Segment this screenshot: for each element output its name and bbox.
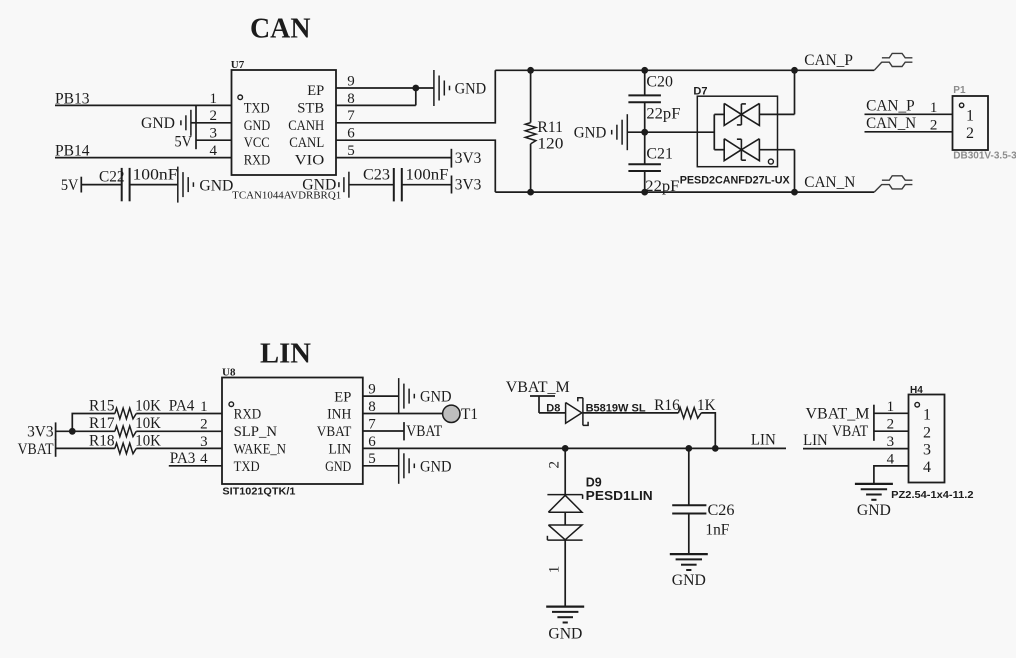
svg-text:PESD1LIN: PESD1LIN: [586, 489, 653, 503]
wire junction up to row 1: [72, 414, 115, 432]
svg-text:LIN: LIN: [260, 337, 311, 369]
svg-text:7: 7: [368, 416, 376, 432]
net label LIN at wire end: [751, 431, 776, 448]
svg-text:CAN: CAN: [250, 13, 311, 45]
power port GND at U8 pin 9: [399, 378, 452, 414]
svg-text:R18: R18: [89, 432, 115, 449]
resistor R18 10K: [89, 432, 222, 453]
svg-text:22pF: 22pF: [645, 178, 679, 195]
pin number 2 of H4: [887, 417, 895, 433]
power port 5V at C22: [61, 177, 81, 194]
connector H4 PZ2.54-1x4-11.2: [891, 385, 973, 501]
svg-text:RXD: RXD: [244, 153, 271, 169]
svg-text:STB: STB: [297, 100, 324, 116]
wire 3V3 to junction: [56, 428, 76, 435]
net label CAN_P at rail: [804, 52, 853, 69]
net label VBAT at H4: [832, 423, 868, 440]
net label CAN_N at rail: [804, 174, 855, 191]
wire U7 pin 2 stub: [196, 122, 232, 124]
net label CAN_P at P1: [866, 98, 915, 115]
svg-text:GND: GND: [548, 625, 582, 642]
svg-text:6: 6: [347, 126, 355, 142]
svg-text:2: 2: [547, 461, 563, 469]
power port 3V3 left: [27, 422, 56, 440]
svg-text:4: 4: [923, 459, 931, 476]
svg-text:T1: T1: [461, 406, 478, 423]
pin number 1 of P1: [930, 100, 938, 116]
power port GND at U7 pin 2: [141, 110, 196, 136]
IC U8 SIT1021QTK/1: [200, 366, 376, 497]
svg-text:PA4: PA4: [169, 398, 195, 415]
svg-text:2: 2: [966, 125, 974, 142]
svg-text:D7: D7: [693, 86, 707, 98]
net label PA3: [170, 450, 196, 467]
svg-text:4: 4: [200, 451, 208, 467]
svg-text:VBAT: VBAT: [18, 441, 54, 458]
svg-text:CANH: CANH: [288, 118, 324, 134]
capacitor C23 100nF: [349, 167, 452, 202]
wire U7 pin 3 stub: [196, 139, 232, 141]
wire U8 pin 6 LIN net: [363, 445, 786, 452]
capacitor C22 100nF: [81, 167, 178, 202]
svg-text:1K: 1K: [697, 397, 716, 414]
wire R17 row: [72, 430, 115, 432]
svg-text:9: 9: [368, 382, 376, 398]
svg-text:GND: GND: [325, 459, 351, 475]
svg-text:10K: 10K: [135, 415, 161, 432]
svg-text:VBAT: VBAT: [317, 424, 352, 440]
svg-text:GND: GND: [420, 458, 452, 475]
capacitor C20 22pF: [628, 70, 680, 132]
resistor R17 10K: [89, 415, 222, 436]
svg-text:3: 3: [210, 126, 218, 142]
net label LIN at H4: [803, 432, 828, 449]
svg-text:VBAT_M: VBAT_M: [506, 379, 570, 396]
svg-text:CANL: CANL: [289, 135, 324, 151]
power port VBAT_M at D8: [506, 379, 570, 413]
svg-text:SIT1021QTK/1: SIT1021QTK/1: [222, 485, 295, 497]
wire H4 pin 4 to ground: [874, 466, 909, 484]
wire LIN to H4 pin 3: [803, 448, 909, 450]
svg-text:U8: U8: [222, 366, 236, 378]
test point T1: [443, 405, 478, 423]
svg-text:2: 2: [200, 416, 208, 432]
svg-text:TXD: TXD: [234, 459, 260, 475]
svg-text:GND: GND: [420, 389, 452, 406]
svg-text:4: 4: [210, 143, 218, 159]
net label PA4: [169, 398, 195, 415]
svg-text:1: 1: [887, 399, 895, 415]
connector P1 DB301V-3.5: [953, 85, 1016, 161]
svg-text:10K: 10K: [135, 398, 161, 415]
svg-text:RXD: RXD: [234, 407, 262, 423]
svg-text:R15: R15: [89, 398, 115, 415]
wire D7 upper to CAN_P rail: [794, 70, 796, 114]
wire PA3 to U8 pin 4: [169, 465, 222, 467]
svg-text:GND: GND: [574, 124, 607, 141]
wire top rail CAN_P: [495, 67, 874, 74]
svg-text:GND: GND: [199, 177, 233, 194]
svg-text:LIN: LIN: [329, 442, 352, 458]
net label CAN_N at P1: [866, 115, 916, 132]
wire D8 to R16: [583, 412, 679, 414]
svg-text:1: 1: [547, 566, 563, 574]
wire D7 lower to CAN_N rail: [794, 150, 796, 192]
power port GND at U7 pin 9: [434, 70, 486, 106]
power port 3V3 at C23: [452, 176, 482, 194]
pin number 4 of H4: [887, 451, 895, 467]
svg-text:5V: 5V: [61, 177, 79, 194]
wire R16 to LIN net: [701, 413, 715, 449]
wire U8 pin 9 to GND: [363, 395, 399, 397]
capacitor C21 22pF: [628, 132, 679, 195]
wire bottom rail CAN_N: [495, 189, 874, 196]
svg-text:1: 1: [966, 107, 974, 124]
svg-text:22pF: 22pF: [646, 106, 680, 123]
wire H4 pin 2: [874, 430, 909, 432]
svg-text:GND: GND: [302, 177, 336, 194]
power port GND at C23: [302, 172, 349, 198]
svg-text:1: 1: [210, 91, 218, 107]
TVS diode D7 PESD2CANFD27L-UX: [680, 86, 795, 187]
svg-text:6: 6: [368, 434, 376, 450]
svg-text:8: 8: [347, 91, 355, 107]
power port GND at C22: [178, 167, 234, 203]
svg-text:PZ2.54-1x4-11.2: PZ2.54-1x4-11.2: [891, 489, 973, 501]
pin number 3 of H4: [887, 434, 895, 450]
power port 5V at U7 pin 3: [175, 134, 193, 151]
power port GND at U8 pin 5: [399, 448, 452, 484]
svg-text:7: 7: [347, 108, 355, 124]
svg-text:120: 120: [537, 135, 563, 152]
pin number 1 of H4: [887, 399, 895, 415]
svg-text:2: 2: [887, 417, 895, 433]
svg-text:C22: C22: [99, 169, 125, 186]
svg-text:D9: D9: [586, 475, 602, 489]
wire CAN_P to P1 pin 1: [865, 113, 953, 115]
svg-text:VBAT: VBAT: [406, 423, 442, 440]
wire U7 pin 7 CANH to top rail: [336, 70, 495, 123]
svg-text:3: 3: [200, 434, 208, 450]
svg-text:EP: EP: [334, 389, 351, 405]
ground at D9: [546, 607, 584, 643]
svg-text:C26: C26: [708, 502, 735, 519]
svg-text:LIN: LIN: [751, 431, 776, 448]
svg-text:VIO: VIO: [295, 153, 325, 169]
svg-text:GND: GND: [857, 502, 891, 519]
svg-text:1: 1: [200, 399, 208, 415]
wire vertical bus left of U7: [195, 105, 197, 149]
svg-text:8: 8: [368, 399, 376, 415]
svg-text:3V3: 3V3: [455, 150, 482, 167]
svg-text:C20: C20: [646, 73, 673, 90]
wire PB14 to U7 pin 4: [55, 157, 232, 159]
svg-text:5: 5: [347, 143, 355, 159]
wire PB13 to U7 pin 1: [55, 104, 232, 106]
TVS diode D9 PESD1LIN: [547, 448, 653, 606]
svg-text:GND: GND: [244, 118, 271, 134]
net label VBAT_M at H4: [806, 405, 870, 422]
svg-text:CAN_P: CAN_P: [804, 52, 853, 69]
wire U7 pin 9 to GND: [336, 85, 434, 92]
wire GND junction to D7: [645, 131, 715, 133]
resistor R11 120: [525, 70, 563, 192]
svg-text:1: 1: [930, 100, 938, 116]
wire H4 pin 1: [874, 412, 909, 414]
svg-text:SLP_N: SLP_N: [234, 424, 278, 440]
title LIN: [260, 337, 311, 369]
svg-text:2: 2: [923, 424, 931, 441]
svg-text:R17: R17: [89, 415, 115, 432]
pin number 2 of P1: [930, 117, 938, 133]
svg-text:EP: EP: [307, 83, 324, 99]
wire U8 pin 7 to VBAT: [363, 430, 404, 432]
resistor R16 1K: [654, 397, 716, 418]
wire VBAT_M to D8 anode: [539, 412, 566, 414]
power port bar at H4 pins 1 2: [873, 405, 875, 441]
svg-text:GND: GND: [455, 81, 487, 98]
ground at H4: [855, 484, 893, 519]
svg-text:GND: GND: [141, 115, 175, 132]
svg-text:INH: INH: [327, 407, 351, 423]
svg-text:PESD2CANFD27L-UX: PESD2CANFD27L-UX: [680, 174, 791, 186]
capacitor C26 1nF: [672, 448, 734, 554]
svg-text:VCC: VCC: [244, 135, 270, 151]
svg-text:WAKE_N: WAKE_N: [234, 442, 287, 458]
svg-text:3: 3: [887, 434, 895, 450]
svg-text:LIN: LIN: [803, 432, 828, 449]
svg-text:9: 9: [347, 73, 355, 89]
svg-text:5: 5: [368, 451, 376, 467]
svg-text:GND: GND: [672, 572, 706, 589]
svg-text:DB301V-3.5-3P: DB301V-3.5-3P: [953, 150, 1016, 161]
svg-text:PA3: PA3: [170, 450, 196, 467]
resistor R15 10K: [89, 398, 222, 419]
svg-text:VBAT_M: VBAT_M: [806, 405, 870, 422]
net label PB13: [55, 90, 90, 107]
connector stub CAN_N: [874, 176, 912, 192]
svg-text:1nF: 1nF: [705, 521, 729, 538]
wire U8 pin 5 to GND: [363, 465, 399, 467]
IC U7 TCAN1044AVDRBRQ1: [210, 59, 356, 202]
wire U7 pin 5 to 3V3: [336, 157, 451, 159]
svg-text:TXD: TXD: [244, 100, 270, 116]
wire U8 pin 8 to T1: [363, 413, 443, 415]
diode D8 B5819W SL: [546, 398, 646, 426]
svg-text:5V: 5V: [175, 134, 193, 151]
svg-text:R11: R11: [537, 119, 563, 136]
power port GND mid at C20 C21: [574, 114, 648, 150]
power port 3V3 at U7 pin 5: [451, 149, 481, 168]
svg-text:P1: P1: [953, 85, 966, 96]
wire U7 pin 6 CANL to bottom rail: [336, 140, 495, 192]
svg-text:2: 2: [930, 117, 938, 133]
svg-text:10K: 10K: [135, 432, 161, 449]
svg-text:CAN_P: CAN_P: [866, 98, 915, 115]
svg-text:4: 4: [887, 451, 895, 467]
wire VBAT to R18: [56, 447, 115, 449]
wire CAN_N to P1 pin 2: [865, 131, 953, 133]
svg-text:VBAT: VBAT: [832, 423, 868, 440]
power port VBAT at U8 pin 7: [404, 422, 442, 440]
connector stub CAN_P: [874, 53, 912, 70]
svg-text:C23: C23: [363, 167, 390, 184]
svg-text:1: 1: [923, 406, 931, 423]
svg-text:C21: C21: [646, 145, 673, 162]
wire U7 pin 8 to pin 9 junction: [336, 88, 416, 105]
svg-text:2: 2: [210, 108, 218, 124]
svg-text:100nF: 100nF: [133, 167, 178, 184]
svg-text:U7: U7: [231, 59, 245, 71]
svg-text:H4: H4: [910, 385, 923, 396]
power port VBAT left: [18, 439, 56, 458]
svg-text:100nF: 100nF: [406, 167, 449, 184]
svg-text:CAN_N: CAN_N: [866, 115, 916, 132]
svg-text:R16: R16: [654, 397, 680, 414]
svg-text:CAN_N: CAN_N: [804, 174, 855, 191]
svg-text:3V3: 3V3: [455, 176, 482, 193]
svg-text:3V3: 3V3: [27, 423, 54, 440]
svg-text:3: 3: [923, 442, 931, 459]
net label PB14: [55, 143, 90, 160]
svg-text:D8: D8: [546, 402, 560, 414]
title CAN: [250, 13, 311, 45]
ground at C26: [670, 554, 708, 589]
